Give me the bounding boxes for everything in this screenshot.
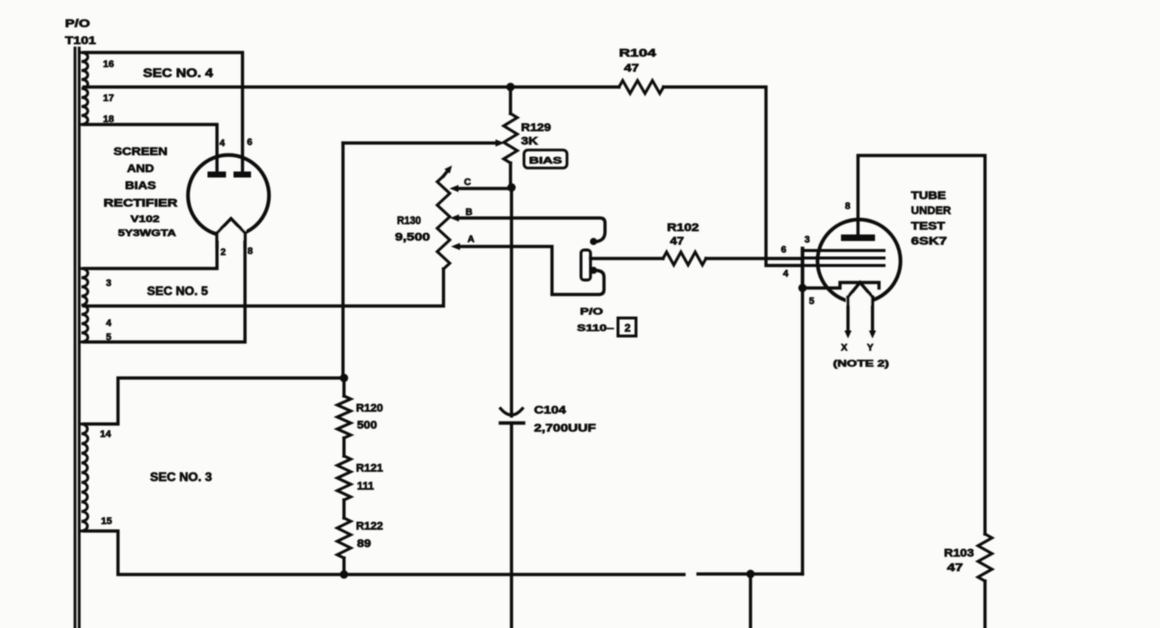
wire 14 (SEC NO.3 top to R120 top bus): [84, 378, 344, 424]
svg-text:8: 8: [845, 201, 851, 212]
label SEC NO. 3: [150, 472, 212, 484]
pin label 17: [103, 93, 114, 104]
junction dot wire17/R129: [506, 83, 514, 91]
svg-text:6SK7: 6SK7: [911, 236, 947, 248]
wire 16 (top of SEC NO.4 to V102 plate pin 6): [84, 53, 243, 173]
transformer T101 core: [75, 48, 79, 628]
capacitor C104 2,700UUF: [501, 409, 523, 416]
label SEC NO. 4: [143, 68, 214, 80]
svg-text:B: B: [466, 207, 473, 218]
wire pin5 node down to ground bus: [801, 288, 804, 574]
svg-text:89: 89: [357, 538, 371, 550]
svg-text:R102: R102: [667, 222, 699, 234]
resistor R120 500: [342, 378, 345, 396]
svg-text:4: 4: [783, 269, 789, 280]
label SEC NO. 5: [147, 286, 209, 298]
pin label 5: [106, 332, 112, 343]
switch S110 lower contact: [590, 267, 597, 274]
svg-text:AND: AND: [127, 163, 154, 175]
V102 label block: [104, 146, 178, 239]
svg-text:TUBE: TUBE: [911, 190, 946, 202]
svg-text:(NOTE 2): (NOTE 2): [833, 359, 889, 370]
pin label 4: [106, 318, 112, 329]
V102 pin label 4: [220, 138, 226, 149]
junction dot C/R129: [507, 183, 515, 191]
6SK7 plate: [841, 235, 875, 242]
svg-text:14: 14: [100, 429, 112, 440]
winding SEC NO. 3: [82, 424, 88, 531]
svg-text:Y: Y: [867, 343, 874, 354]
wire 5 (SEC NO.5 bottom to V102 filament pin 8): [84, 236, 245, 342]
svg-text:T101: T101: [65, 35, 96, 47]
svg-text:R120: R120: [356, 403, 383, 415]
svg-text:R104: R104: [619, 48, 657, 60]
6SK7 grid line pin 3: [804, 249, 884, 252]
svg-text:R103: R103: [944, 548, 974, 560]
resistor R129 3K (bias potentiometer): [509, 87, 512, 114]
svg-text:SCREEN: SCREEN: [114, 146, 168, 158]
svg-text:SEC NO. 5: SEC NO. 5: [147, 286, 209, 298]
vertical wire from R129 wiper down to R120 bus: [341, 143, 344, 378]
tube under test 6SK7 envelope: [818, 220, 901, 303]
winding SEC NO. 4: [82, 53, 88, 125]
note 2 label: [833, 359, 889, 370]
wire 18 (bottom of SEC NO.4 to V102 plate pin 4): [84, 125, 217, 173]
wire switch pole to grid bracket: [591, 257, 664, 260]
svg-text:V102: V102: [131, 214, 160, 225]
svg-text:500: 500: [357, 420, 377, 432]
svg-text:P/O: P/O: [580, 307, 604, 318]
R129 value label: [521, 122, 551, 148]
transformer T101 label P/O T101: [65, 18, 96, 47]
junction dot pin 5 node: [798, 284, 806, 292]
V102 plate (pin 6): [234, 172, 252, 178]
svg-text:3K: 3K: [521, 136, 538, 148]
svg-text:R129: R129: [521, 122, 551, 134]
svg-text:SEC NO. 3: SEC NO. 3: [150, 472, 212, 484]
pin label 3: [106, 278, 111, 289]
svg-text:8: 8: [248, 246, 254, 257]
svg-text:UNDER: UNDER: [911, 205, 951, 217]
svg-text:18: 18: [103, 114, 115, 125]
svg-text:2,700UUF: 2,700UUF: [534, 423, 596, 435]
junction dot R122 bottom / ground bus: [340, 570, 348, 578]
heater lead arrow X: [846, 297, 849, 331]
svg-text:15: 15: [101, 516, 113, 527]
node C wire (tap C to R129 bottom junction): [456, 187, 512, 190]
6SK7 grid line pin 6: [804, 257, 884, 260]
pin label 18: [103, 114, 115, 125]
svg-text:111: 111: [357, 481, 374, 493]
resistor R102 47: [663, 252, 706, 265]
svg-text:47: 47: [947, 562, 963, 574]
pin label 16: [103, 59, 114, 70]
wire R129 junction down to C104: [510, 188, 513, 417]
pin label 15: [101, 516, 113, 527]
wire 3 (SEC NO.5 top to V102 filament pin 2): [84, 233, 217, 269]
wire 15 (SEC NO.3 bottom to ground bus): [84, 531, 684, 575]
winding SEC NO. 5: [82, 269, 88, 343]
switch S110 upper contact: [590, 238, 597, 245]
switch S110 label P/O S110-2: [577, 307, 615, 335]
R130 value label: [395, 215, 430, 244]
svg-text:P/O: P/O: [65, 18, 91, 30]
resistor R104 47: [619, 81, 664, 94]
V102 filament: [217, 219, 245, 234]
svg-text:SEC NO. 4: SEC NO. 4: [143, 68, 214, 80]
svg-text:A: A: [468, 234, 475, 245]
pin label 14: [100, 429, 112, 440]
wire 17 (center tap of SEC NO.4, bias supply bus): [84, 85, 619, 88]
6SK7 grid bracket bar: [801, 249, 805, 289]
node A wire (tap A to switch lower contact): [457, 247, 604, 295]
node B wire (tap B to switch upper contact): [456, 218, 605, 242]
6SK7 label TUBE UNDER TEST 6SK7: [911, 190, 951, 248]
svg-text:BIAS: BIAS: [529, 156, 563, 167]
wire 4 (SEC NO.5 center tap to R130 bottom): [84, 269, 444, 306]
resistor R130 9,500 (potentiometer with taps A B C): [437, 176, 450, 269]
junction dot ground bus / drop wire: [746, 570, 754, 578]
svg-text:4: 4: [220, 138, 226, 149]
svg-text:5: 5: [809, 296, 815, 307]
svg-text:3: 3: [106, 278, 111, 289]
svg-text:X: X: [841, 343, 848, 354]
svg-text:R121: R121: [356, 463, 383, 475]
svg-text:16: 16: [103, 59, 114, 70]
wire drop from ground bus to bottom edge: [749, 574, 752, 628]
switch S110 pole bar: [581, 250, 591, 280]
wire ground bus right segment: [698, 572, 803, 575]
wire pin 8 plate to R103 top: [858, 156, 985, 535]
junction dot R120 top: [340, 374, 348, 382]
svg-text:4: 4: [106, 318, 112, 329]
svg-text:5Y3WGTA: 5Y3WGTA: [118, 228, 176, 239]
6SK7 grid line pin 4: [804, 264, 884, 267]
svg-text:R122: R122: [356, 521, 383, 533]
svg-text:5: 5: [106, 332, 112, 343]
svg-text:2: 2: [221, 247, 226, 258]
svg-text:6: 6: [247, 137, 252, 148]
V102 filament notch mask: [216, 228, 246, 240]
6SK7 heater: [848, 283, 873, 298]
BIAS panel label box: [524, 150, 567, 168]
V102 pin label 6: [247, 137, 252, 148]
V102 pin label 2: [221, 247, 226, 258]
svg-text:R130: R130: [397, 215, 421, 227]
svg-text:17: 17: [103, 93, 114, 104]
svg-text:C: C: [464, 177, 471, 188]
svg-text:47: 47: [670, 236, 684, 248]
heater lead arrow Y: [871, 297, 874, 331]
R129 wiper arrow: [343, 141, 496, 144]
V102 pin label 8: [248, 246, 254, 257]
svg-text:3: 3: [805, 235, 810, 246]
svg-text:6: 6: [781, 245, 786, 256]
svg-text:TEST: TEST: [911, 221, 945, 233]
svg-text:2: 2: [624, 323, 630, 335]
V102 plate (pin 4): [208, 172, 227, 178]
V102 filament leads: [217, 233, 245, 247]
R130 top adjust arrow: [444, 171, 448, 176]
resistor R121 111: [342, 438, 345, 456]
6SK7 heater notch mask: [846, 294, 873, 305]
svg-text:9,500: 9,500: [395, 232, 430, 244]
svg-text:S110–: S110–: [577, 323, 615, 334]
6SK7 pin label 8: [845, 201, 851, 212]
svg-text:47: 47: [624, 63, 639, 75]
6SK7 cathode: [803, 283, 880, 289]
svg-text:BIAS: BIAS: [125, 180, 156, 192]
svg-text:RECTIFIER: RECTIFIER: [104, 198, 178, 210]
resistor R103 47: [978, 534, 992, 581]
resistor R122 89: [342, 500, 345, 518]
rectifier tube V102 envelope: [188, 155, 269, 236]
svg-text:C104: C104: [534, 405, 567, 417]
